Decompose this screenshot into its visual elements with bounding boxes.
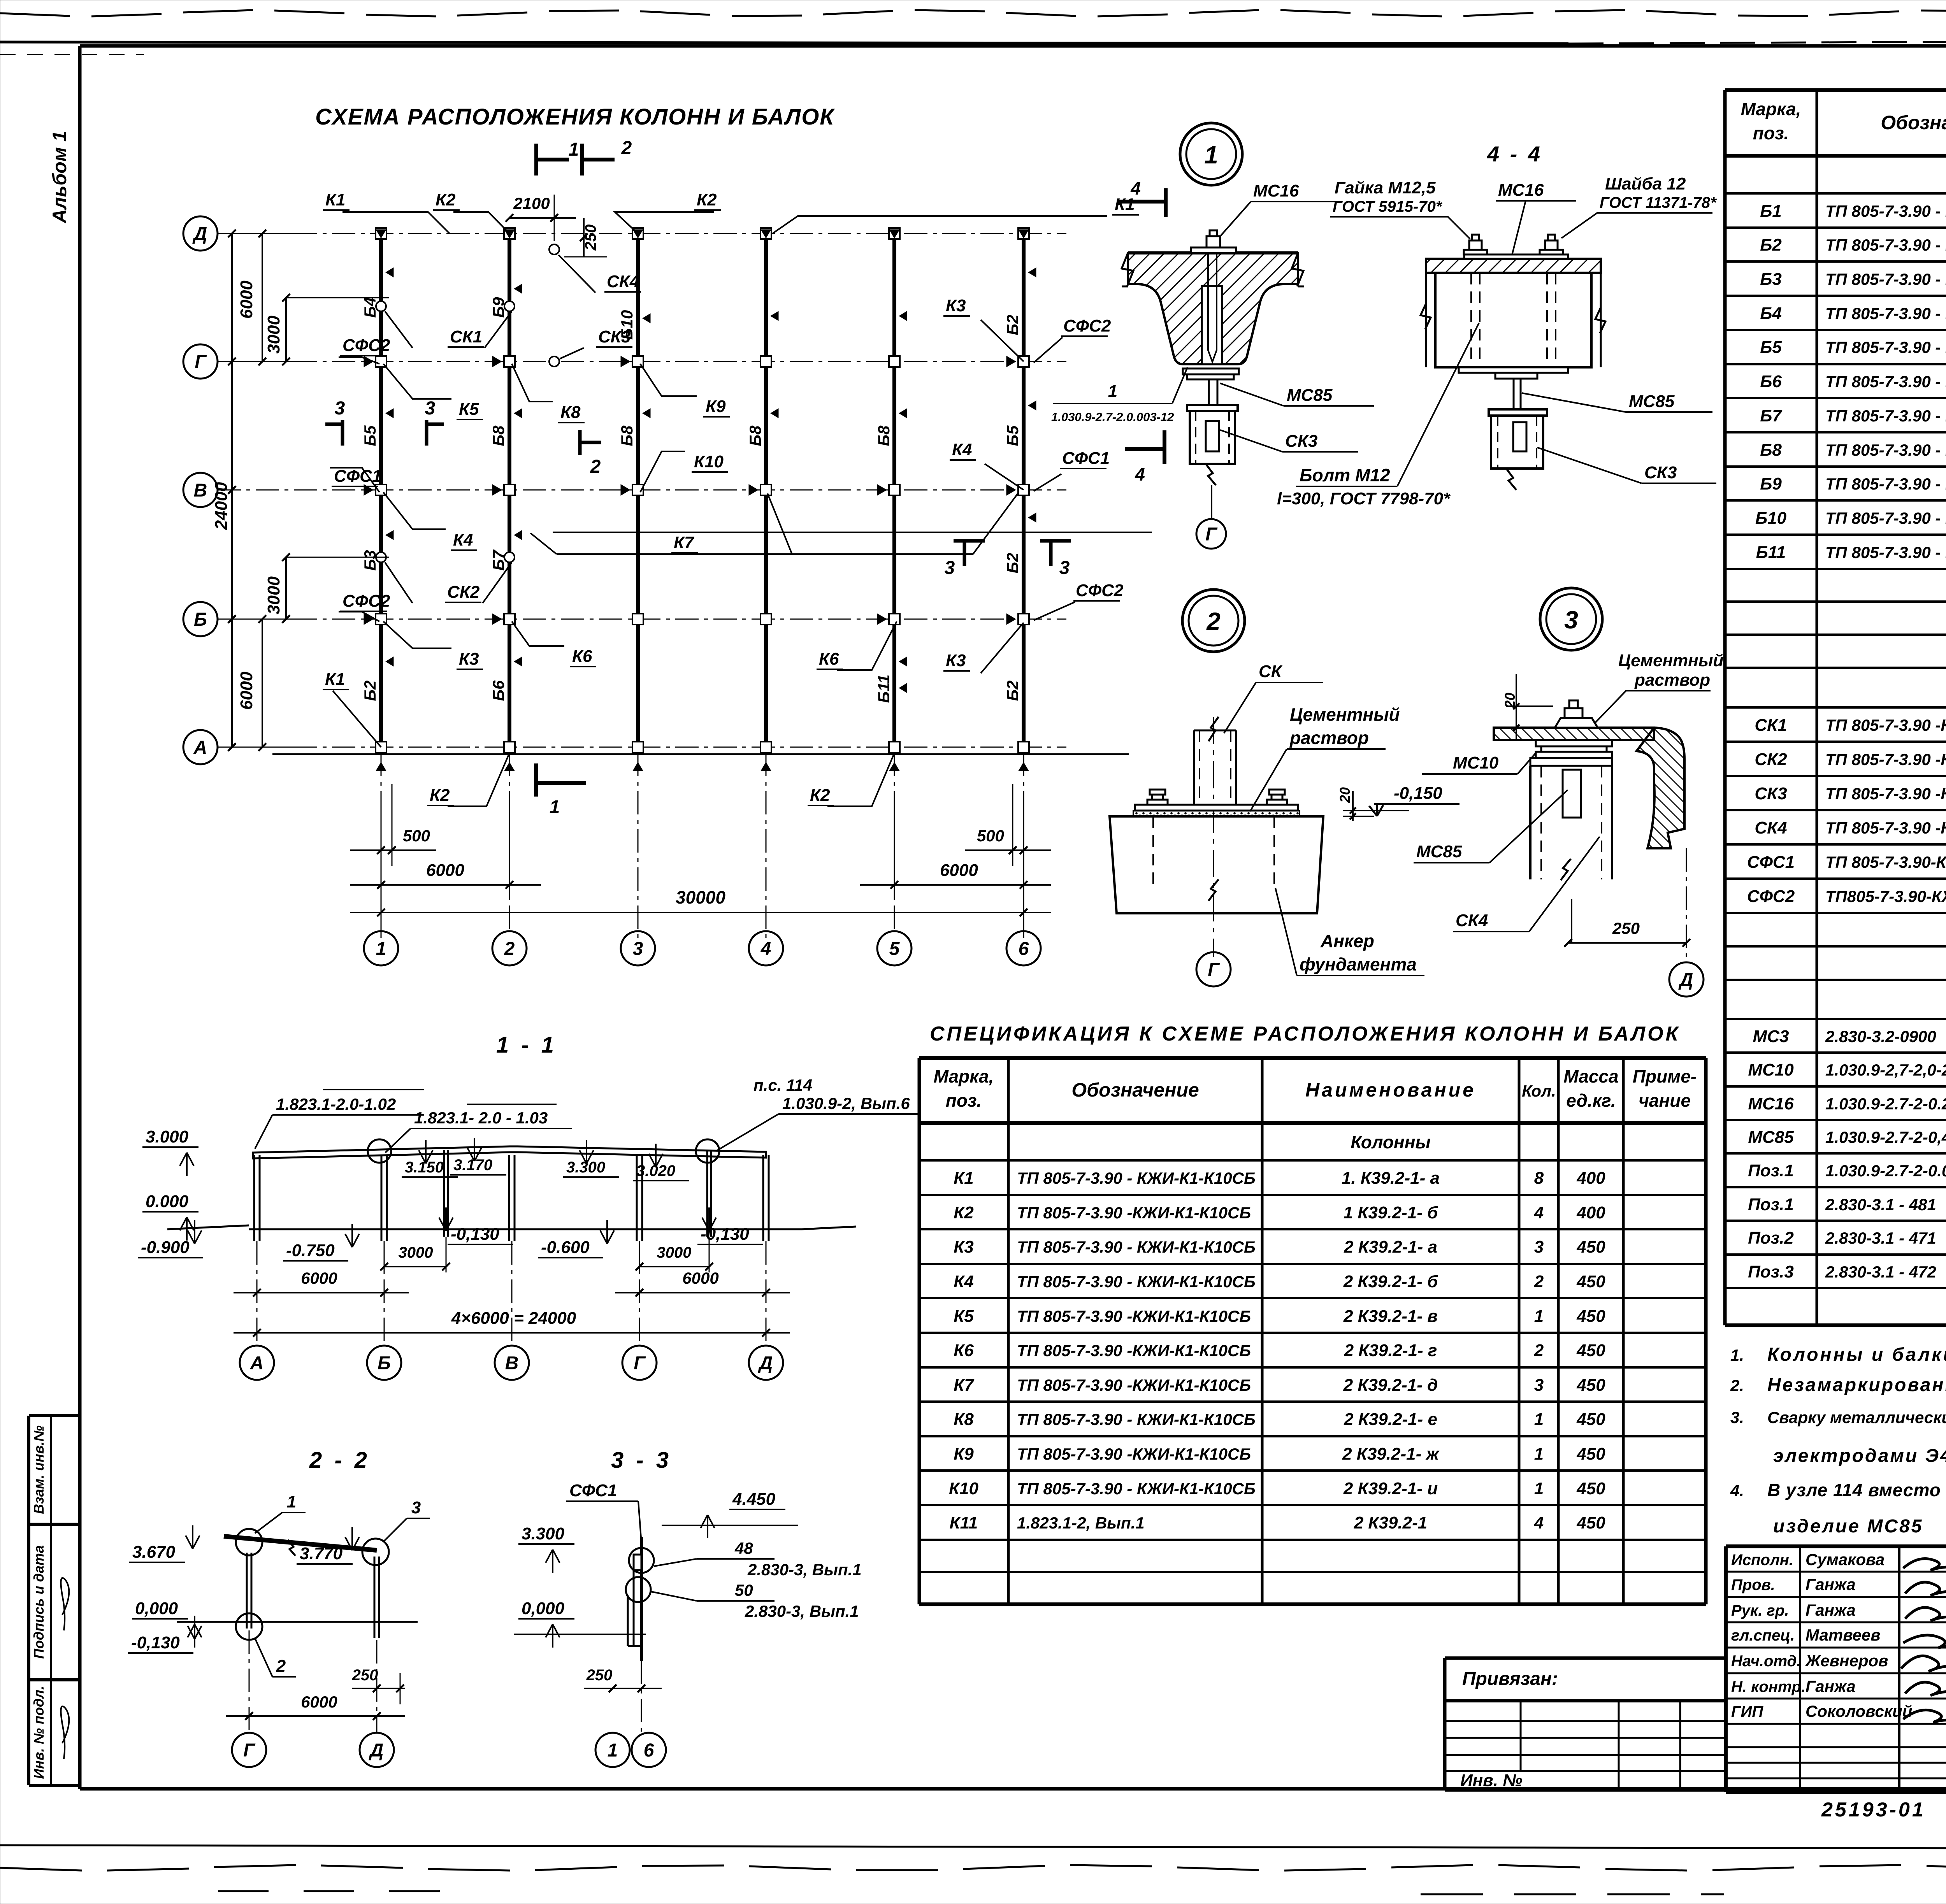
svg-text:2.830-3, Вып.1: 2.830-3, Вып.1 bbox=[747, 1560, 862, 1579]
svg-text:1.030.9-2.7-2-0.00.3-12: 1.030.9-2.7-2-0.00.3-12 bbox=[1825, 1162, 1946, 1180]
svg-text:В узле 114 вместо соедините: В узле 114 вместо соединительного издели… bbox=[1767, 1480, 1946, 1500]
svg-text:К6: К6 bbox=[954, 1341, 974, 1360]
svg-text:ТП 805-7-3.90 - КЖИ-Б1-Б11СБ: ТП 805-7-3.90 - КЖИ-Б1-Б11СБ bbox=[1825, 270, 1946, 288]
svg-text:ТП 805-7-3.90 - КЖИ-К1-К10СБ: ТП 805-7-3.90 - КЖИ-К1-К10СБ bbox=[1017, 1169, 1256, 1187]
svg-text:ТП 805-7-3.90 - КЖИ-Б1-Б11СБ: ТП 805-7-3.90 - КЖИ-Б1-Б11СБ bbox=[1825, 475, 1946, 493]
svg-text:СК3: СК3 bbox=[1285, 432, 1317, 451]
svg-text:Кол.: Кол. bbox=[1522, 1082, 1556, 1100]
svg-text:СК3: СК3 bbox=[598, 327, 631, 346]
svg-text:1.823.1-2.0-1.02: 1.823.1-2.0-1.02 bbox=[276, 1095, 396, 1113]
svg-text:Б9: Б9 bbox=[1760, 474, 1782, 493]
svg-text:СПЕЦИФИКАЦИЯ К СХЕМЕ РАСПОЛ: СПЕЦИФИКАЦИЯ К СХЕМЕ РАСПОЛОЖЕНИЯ КОЛОНН… bbox=[930, 1023, 1681, 1045]
svg-text:СФС2: СФС2 bbox=[1076, 581, 1124, 600]
svg-text:Г: Г bbox=[1208, 960, 1220, 980]
svg-text:1: 1 bbox=[608, 1740, 618, 1761]
svg-text:2.830-3.1 - 481: 2.830-3.1 - 481 bbox=[1825, 1195, 1936, 1214]
svg-text:Поз.2: Поз.2 bbox=[1748, 1228, 1794, 1248]
svg-text:электродами Э42 ГОСТ 9467-7: электродами Э42 ГОСТ 9467-75. bbox=[1773, 1446, 1946, 1466]
svg-text:250: 250 bbox=[582, 225, 599, 251]
svg-text:1.: 1. bbox=[1730, 1346, 1744, 1364]
svg-text:30000: 30000 bbox=[676, 887, 725, 907]
svg-text:ТП 805-7-3.90 - КЖИ-К1-К10СБ: ТП 805-7-3.90 - КЖИ-К1-К10СБ bbox=[1017, 1272, 1256, 1291]
svg-text:2 К39.2-1- ж: 2 К39.2-1- ж bbox=[1342, 1444, 1440, 1464]
svg-text:2.830-3.2-0900: 2.830-3.2-0900 bbox=[1825, 1027, 1936, 1046]
svg-text:Сварку металлических элементов: Сварку металлических элементов производи… bbox=[1767, 1408, 1946, 1427]
svg-text:Б6: Б6 bbox=[1760, 372, 1782, 391]
svg-text:К9: К9 bbox=[954, 1444, 974, 1464]
svg-text:2: 2 bbox=[504, 939, 515, 959]
svg-text:4.: 4. bbox=[1730, 1481, 1744, 1500]
svg-text:МС85: МС85 bbox=[1629, 392, 1675, 411]
svg-text:Колонны: Колонны bbox=[1351, 1132, 1431, 1152]
svg-text:ТП 805-7-3.90 -КЖИ-К1-К10СБ: ТП 805-7-3.90 -КЖИ-К1-К10СБ bbox=[1017, 1376, 1251, 1394]
svg-text:К7: К7 bbox=[674, 533, 695, 552]
svg-text:Г: Г bbox=[1205, 524, 1218, 545]
svg-text:К5: К5 bbox=[459, 400, 479, 419]
svg-text:2 К39.2-1- е: 2 К39.2-1- е bbox=[1344, 1410, 1437, 1429]
svg-text:Анкер: Анкер bbox=[1320, 931, 1374, 951]
svg-text:Б8: Б8 bbox=[746, 425, 764, 446]
svg-text:4.450: 4.450 bbox=[732, 1490, 776, 1509]
svg-text:Б10: Б10 bbox=[1755, 509, 1787, 528]
svg-text:6: 6 bbox=[1019, 939, 1029, 959]
svg-text:2 К39.2-1: 2 К39.2-1 bbox=[1354, 1513, 1428, 1532]
svg-text:ТП 805-7-3.90 -КЖИ-К1-К10СБ: ТП 805-7-3.90 -КЖИ-К1-К10СБ bbox=[1017, 1445, 1251, 1463]
svg-text:400: 400 bbox=[1576, 1169, 1605, 1188]
svg-text:2: 2 bbox=[1534, 1272, 1544, 1291]
svg-text:ТП 805-7-3.90 -КЖИ-СК1-СК4СБ: ТП 805-7-3.90 -КЖИ-СК1-СК4СБ bbox=[1825, 750, 1946, 769]
svg-text:К4: К4 bbox=[954, 1272, 974, 1291]
svg-text:Б4: Б4 bbox=[1760, 304, 1782, 323]
svg-text:Б8: Б8 bbox=[1760, 440, 1782, 460]
svg-text:К3: К3 bbox=[946, 651, 966, 670]
svg-text:Обозначение: Обозначение bbox=[1071, 1079, 1199, 1101]
svg-text:-0.600: -0.600 bbox=[541, 1238, 590, 1257]
svg-text:4×6000 = 24000: 4×6000 = 24000 bbox=[451, 1309, 576, 1328]
svg-text:3: 3 bbox=[1059, 558, 1070, 578]
svg-text:6000: 6000 bbox=[237, 672, 256, 710]
svg-text:-0,130: -0,130 bbox=[131, 1633, 180, 1652]
svg-text:Болт М12: Болт М12 bbox=[1300, 465, 1390, 485]
svg-text:20: 20 bbox=[1337, 787, 1353, 803]
svg-text:СФС1: СФС1 bbox=[569, 1481, 617, 1500]
svg-text:1: 1 bbox=[287, 1492, 296, 1511]
svg-text:1 К39.2-1- б: 1 К39.2-1- б bbox=[1344, 1203, 1438, 1222]
svg-text:1: 1 bbox=[1534, 1307, 1544, 1326]
svg-text:ТП 805-7-3.90 - КЖИ-К1-К10СБ: ТП 805-7-3.90 - КЖИ-К1-К10СБ bbox=[1017, 1410, 1256, 1428]
svg-text:СК4: СК4 bbox=[1755, 818, 1787, 837]
svg-text:24000: 24000 bbox=[212, 482, 231, 530]
svg-text:К7: К7 bbox=[954, 1376, 975, 1395]
svg-text:СФС1: СФС1 bbox=[334, 467, 381, 486]
svg-text:3000: 3000 bbox=[264, 316, 283, 354]
svg-text:Марка,: Марка, bbox=[1741, 99, 1801, 119]
svg-text:К6: К6 bbox=[819, 649, 839, 669]
svg-text:Б2: Б2 bbox=[361, 680, 379, 701]
svg-text:400: 400 bbox=[1576, 1203, 1605, 1222]
svg-text:К2: К2 bbox=[430, 786, 450, 805]
svg-text:К4: К4 bbox=[952, 440, 972, 459]
svg-text:ТП 805-7-3.90 - КЖИ-Б1-Б11СБ: ТП 805-7-3.90 - КЖИ-Б1-Б11СБ bbox=[1825, 509, 1946, 527]
svg-text:450: 450 bbox=[1576, 1341, 1605, 1360]
svg-text:Д: Д bbox=[192, 224, 207, 244]
svg-text:1 - 1: 1 - 1 bbox=[496, 1032, 557, 1058]
svg-text:СК3: СК3 bbox=[1644, 463, 1677, 482]
svg-text:6000: 6000 bbox=[682, 1269, 718, 1287]
svg-text:Подпись и дата: Подпись и дата bbox=[31, 1545, 47, 1659]
svg-text:1: 1 bbox=[550, 797, 560, 818]
svg-text:А: А bbox=[250, 1353, 264, 1374]
svg-text:В: В bbox=[505, 1353, 519, 1374]
svg-text:50: 50 bbox=[735, 1581, 753, 1599]
svg-text:Б11: Б11 bbox=[1756, 543, 1786, 562]
svg-text:2: 2 bbox=[276, 1657, 286, 1676]
svg-text:6000: 6000 bbox=[301, 1269, 337, 1287]
svg-text:К1: К1 bbox=[325, 670, 345, 689]
svg-text:2.830-3.1 - 472: 2.830-3.1 - 472 bbox=[1825, 1263, 1936, 1281]
svg-text:К11: К11 bbox=[950, 1513, 978, 1532]
svg-text:3000: 3000 bbox=[657, 1244, 692, 1261]
svg-text:3: 3 bbox=[425, 398, 436, 419]
svg-text:Б5: Б5 bbox=[361, 425, 379, 446]
svg-text:Масса: Масса bbox=[1563, 1066, 1618, 1086]
svg-text:К1: К1 bbox=[325, 190, 346, 209]
svg-text:Б2: Б2 bbox=[1003, 553, 1022, 573]
svg-text:8: 8 bbox=[1534, 1169, 1544, 1188]
svg-text:450: 450 bbox=[1576, 1444, 1605, 1464]
svg-text:0,000: 0,000 bbox=[522, 1599, 565, 1618]
svg-text:К8: К8 bbox=[560, 403, 581, 422]
svg-text:МС3: МС3 bbox=[1753, 1027, 1789, 1046]
svg-text:ТП 805-7-3.90 - КЖИ-Б1-Б11СБ: ТП 805-7-3.90 - КЖИ-Б1-Б11СБ bbox=[1825, 372, 1946, 391]
svg-text:МС85: МС85 bbox=[1748, 1128, 1794, 1147]
svg-text:Г: Г bbox=[195, 352, 207, 372]
svg-text:3000: 3000 bbox=[399, 1244, 433, 1261]
svg-text:6000: 6000 bbox=[426, 861, 464, 880]
svg-text:ТП 805-7-3.90 - КЖИ-Б1-Б11СБ: ТП 805-7-3.90 - КЖИ-Б1-Б11СБ bbox=[1825, 543, 1946, 562]
svg-text:250: 250 bbox=[1612, 919, 1640, 937]
svg-text:1.030.9-2.7-2.0.003-12: 1.030.9-2.7-2.0.003-12 bbox=[1051, 410, 1174, 424]
svg-text:К2: К2 bbox=[697, 190, 717, 209]
svg-text:СФС2: СФС2 bbox=[1063, 316, 1111, 335]
svg-text:фундамента: фундамента bbox=[1300, 954, 1417, 974]
svg-text:ТП 805-7-3.90 - КЖИ-Б1-Б11СБ: ТП 805-7-3.90 - КЖИ-Б1-Б11СБ bbox=[1825, 441, 1946, 459]
svg-text:6000: 6000 bbox=[237, 281, 256, 319]
svg-text:1: 1 bbox=[569, 139, 579, 160]
svg-text:изделие МС85: изделие МС85 bbox=[1773, 1516, 1923, 1537]
svg-text:СХЕМА РАСПОЛОЖЕНИЯ КОЛОНН И: СХЕМА РАСПОЛОЖЕНИЯ КОЛОНН И БАЛОК bbox=[315, 104, 835, 130]
svg-text:Ганжа: Ганжа bbox=[1805, 1575, 1856, 1593]
svg-text:ТП 805-7-3.90 -КЖИ-К1-К10СБ: ТП 805-7-3.90 -КЖИ-К1-К10СБ bbox=[1017, 1307, 1251, 1325]
svg-text:2 К39.2-1- а: 2 К39.2-1- а bbox=[1344, 1237, 1437, 1256]
svg-text:3 - 3: 3 - 3 bbox=[611, 1448, 672, 1473]
svg-text:2 - 2: 2 - 2 bbox=[309, 1448, 370, 1473]
svg-text:Взам. инв.№: Взам. инв.№ bbox=[31, 1425, 47, 1514]
svg-text:3000: 3000 bbox=[264, 576, 283, 614]
svg-text:Б8: Б8 bbox=[875, 425, 893, 446]
svg-text:1.823.1- 2.0 - 1.03: 1.823.1- 2.0 - 1.03 bbox=[414, 1109, 548, 1127]
svg-text:Д: Д bbox=[1678, 970, 1693, 990]
svg-text:1.030.9-2.7-2-0,49.0: 1.030.9-2.7-2-0,49.0 bbox=[1825, 1128, 1946, 1146]
svg-text:Б5: Б5 bbox=[1760, 338, 1782, 357]
svg-text:СК3: СК3 bbox=[1755, 784, 1787, 803]
svg-text:1: 1 bbox=[1204, 141, 1218, 169]
svg-text:СК1: СК1 bbox=[1755, 716, 1787, 735]
svg-text:3: 3 bbox=[335, 398, 345, 419]
svg-text:Б11: Б11 bbox=[875, 674, 893, 703]
svg-text:Б7: Б7 bbox=[489, 549, 508, 571]
svg-text:3: 3 bbox=[1534, 1237, 1544, 1256]
svg-text:1.030.9-2.7-2-0.22.0: 1.030.9-2.7-2-0.22.0 bbox=[1825, 1095, 1946, 1113]
svg-text:3.000: 3.000 bbox=[146, 1127, 189, 1146]
svg-text:ТП 805-7-3.90 -КЖИ-СК1-СК4СБ: ТП 805-7-3.90 -КЖИ-СК1-СК4СБ bbox=[1825, 819, 1946, 837]
svg-text:25193-01: 25193-01 bbox=[1821, 1799, 1926, 1821]
svg-text:К8: К8 bbox=[954, 1410, 974, 1429]
svg-text:Колонны и балки ориентирова: Колонны и балки ориентировать по знаку bbox=[1767, 1344, 1946, 1365]
svg-text:Обозначение: Обозначение bbox=[1881, 112, 1946, 133]
svg-text:Незамаркированные колонны пр: Незамаркированные колонны приняты марки … bbox=[1767, 1375, 1946, 1395]
svg-text:поз.: поз. bbox=[946, 1090, 982, 1111]
svg-text:2 К39.2-1- и: 2 К39.2-1- и bbox=[1343, 1479, 1438, 1498]
svg-text:1: 1 bbox=[1534, 1410, 1544, 1429]
svg-text:1: 1 bbox=[376, 939, 386, 959]
svg-text:К3: К3 bbox=[954, 1237, 974, 1256]
svg-text:МС10: МС10 bbox=[1453, 753, 1499, 772]
svg-text:ТП 805-7-3.90 - КЖИ-Б1-Б11СБ: ТП 805-7-3.90 - КЖИ-Б1-Б11СБ bbox=[1825, 338, 1946, 356]
svg-text:2.: 2. bbox=[1730, 1376, 1744, 1395]
svg-text:2: 2 bbox=[1534, 1341, 1544, 1360]
svg-text:МС85: МС85 bbox=[1287, 386, 1333, 405]
svg-text:2 К39.2-1- б: 2 К39.2-1- б bbox=[1343, 1272, 1438, 1291]
svg-text:-0.900: -0.900 bbox=[141, 1238, 190, 1257]
svg-text:Привязан:: Привязан: bbox=[1462, 1669, 1558, 1689]
svg-text:К10: К10 bbox=[949, 1479, 979, 1498]
svg-text:ТП 805-7-3.90 - КЖИ-Б1-Б11СБ: ТП 805-7-3.90 - КЖИ-Б1-Б11СБ bbox=[1825, 202, 1946, 220]
svg-text:К4: К4 bbox=[453, 530, 473, 549]
svg-text:ТП 805-7-3.90 -КЖИ-СК1-СК4СБ: ТП 805-7-3.90 -КЖИ-СК1-СК4СБ bbox=[1825, 716, 1946, 734]
svg-text:Б5: Б5 bbox=[1003, 425, 1022, 446]
svg-text:3: 3 bbox=[633, 939, 643, 959]
svg-text:4 - 4: 4 - 4 bbox=[1487, 142, 1542, 166]
svg-text:СК2: СК2 bbox=[1755, 750, 1787, 769]
svg-text:450: 450 bbox=[1576, 1376, 1605, 1395]
svg-text:2 К39.2-1- г: 2 К39.2-1- г bbox=[1344, 1341, 1437, 1360]
svg-text:СФС1: СФС1 bbox=[1747, 853, 1795, 872]
svg-text:Б3: Б3 bbox=[361, 550, 379, 570]
svg-text:2100: 2100 bbox=[513, 194, 550, 212]
svg-text:Б4: Б4 bbox=[361, 297, 379, 318]
svg-text:К1: К1 bbox=[954, 1169, 974, 1188]
svg-text:МС16: МС16 bbox=[1253, 181, 1299, 200]
svg-text:Нач.отд.: Нач.отд. bbox=[1731, 1653, 1801, 1670]
svg-text:1.823.1-2, Вып.1: 1.823.1-2, Вып.1 bbox=[1017, 1514, 1145, 1532]
svg-text:ТП 805-7-3.90 - КЖИ-Б1-Б11СБ: ТП 805-7-3.90 - КЖИ-Б1-Б11СБ bbox=[1825, 407, 1946, 425]
svg-text:К2: К2 bbox=[810, 786, 830, 805]
svg-text:СФС1: СФС1 bbox=[1062, 449, 1110, 468]
svg-text:Инв. № подл.: Инв. № подл. bbox=[31, 1686, 47, 1779]
svg-text:1.030.9-2, Вып.6: 1.030.9-2, Вып.6 bbox=[782, 1094, 910, 1113]
svg-text:4: 4 bbox=[760, 939, 771, 959]
svg-text:6: 6 bbox=[644, 1740, 654, 1761]
svg-text:Б2: Б2 bbox=[1003, 314, 1022, 335]
svg-text:Б: Б bbox=[194, 609, 207, 630]
svg-text:Г: Г bbox=[243, 1740, 256, 1761]
svg-text:Поз.1: Поз.1 bbox=[1748, 1161, 1794, 1180]
svg-text:450: 450 bbox=[1576, 1410, 1605, 1429]
svg-text:2.830-3.1 - 471: 2.830-3.1 - 471 bbox=[1825, 1229, 1936, 1247]
svg-text:0,000: 0,000 bbox=[135, 1599, 178, 1618]
svg-text:ТП 805-7-3.90-КЖИ-СФС1, СФС2: ТП 805-7-3.90-КЖИ-СФС1, СФС2 bbox=[1825, 853, 1946, 871]
svg-text:0.000: 0.000 bbox=[146, 1192, 189, 1211]
svg-text:Инв. №: Инв. № bbox=[1460, 1771, 1523, 1790]
svg-text:Д: Д bbox=[758, 1353, 773, 1374]
svg-text:Гайка М12,5: Гайка М12,5 bbox=[1335, 178, 1436, 197]
svg-text:6000: 6000 bbox=[301, 1693, 337, 1711]
svg-text:1: 1 bbox=[1534, 1479, 1544, 1498]
svg-text:Б1: Б1 bbox=[1760, 202, 1782, 221]
svg-text:3: 3 bbox=[1534, 1376, 1544, 1395]
svg-text:250: 250 bbox=[352, 1667, 378, 1684]
svg-text:4: 4 bbox=[1534, 1203, 1544, 1222]
svg-text:2: 2 bbox=[1206, 607, 1221, 635]
svg-text:ГОСТ 11371-78*: ГОСТ 11371-78* bbox=[1600, 194, 1717, 211]
svg-text:СФС2: СФС2 bbox=[1747, 887, 1795, 906]
svg-text:Цементный: Цементный bbox=[1290, 704, 1400, 725]
svg-text:К5: К5 bbox=[954, 1307, 974, 1326]
svg-text:К9: К9 bbox=[706, 397, 726, 416]
svg-text:поз.: поз. bbox=[1753, 123, 1789, 143]
svg-text:-0.750: -0.750 bbox=[286, 1241, 335, 1260]
svg-text:450: 450 bbox=[1576, 1513, 1605, 1532]
svg-text:2.830-3, Вып.1: 2.830-3, Вып.1 bbox=[745, 1602, 859, 1620]
svg-text:раствор: раствор bbox=[1289, 728, 1369, 748]
svg-text:Марка,: Марка, bbox=[934, 1066, 994, 1086]
svg-text:-0,150: -0,150 bbox=[1394, 784, 1442, 803]
svg-text:Поз.3: Поз.3 bbox=[1748, 1262, 1794, 1281]
svg-text:Б2: Б2 bbox=[1760, 235, 1782, 254]
svg-text:ТП 805-7-3.90 -КЖИ-К1-К10СБ: ТП 805-7-3.90 -КЖИ-К1-К10СБ bbox=[1017, 1341, 1251, 1360]
svg-text:ТП 805-7-3.90 - КЖИ-К1-К10СБ: ТП 805-7-3.90 - КЖИ-К1-К10СБ bbox=[1017, 1238, 1256, 1256]
svg-text:раствор: раствор bbox=[1634, 670, 1710, 690]
svg-text:Наименование: Наименование bbox=[1305, 1079, 1476, 1101]
svg-text:К2: К2 bbox=[954, 1203, 974, 1222]
svg-text:В: В bbox=[194, 480, 207, 501]
svg-text:Б8: Б8 bbox=[618, 425, 636, 446]
svg-text:3.770: 3.770 bbox=[300, 1544, 343, 1563]
svg-text:2: 2 bbox=[590, 456, 601, 477]
svg-text:СК1: СК1 bbox=[450, 327, 482, 346]
svg-text:СК4: СК4 bbox=[607, 272, 639, 291]
svg-text:гл.спец.: гл.спец. bbox=[1731, 1627, 1795, 1644]
svg-text:МС16: МС16 bbox=[1748, 1094, 1794, 1113]
svg-text:1. К39.2-1- а: 1. К39.2-1- а bbox=[1342, 1169, 1440, 1188]
svg-text:250: 250 bbox=[586, 1667, 613, 1684]
svg-text:500: 500 bbox=[977, 827, 1004, 845]
svg-text:К2: К2 bbox=[436, 190, 456, 209]
svg-text:48: 48 bbox=[734, 1539, 753, 1557]
svg-text:чание: чание bbox=[1639, 1090, 1691, 1111]
svg-text:Б3: Б3 bbox=[1760, 270, 1782, 289]
svg-text:Б7: Б7 bbox=[1760, 406, 1783, 425]
svg-text:К3: К3 bbox=[459, 649, 479, 669]
svg-text:Приме-: Приме- bbox=[1633, 1066, 1697, 1086]
svg-text:3: 3 bbox=[1564, 606, 1578, 634]
svg-text:Б8: Б8 bbox=[489, 425, 508, 446]
svg-text:ТП 805-7-3.90 - КЖИ-К1-К10СБ: ТП 805-7-3.90 - КЖИ-К1-К10СБ bbox=[1017, 1479, 1256, 1498]
svg-text:Б6: Б6 bbox=[489, 680, 508, 701]
svg-text:4: 4 bbox=[1135, 464, 1145, 484]
svg-text:1: 1 bbox=[1108, 382, 1117, 401]
svg-text:СФС2: СФС2 bbox=[342, 336, 390, 355]
svg-text:450: 450 bbox=[1576, 1307, 1605, 1326]
svg-text:450: 450 bbox=[1576, 1237, 1605, 1256]
svg-text:СК4: СК4 bbox=[1456, 911, 1488, 930]
svg-text:2 К39.2-1- д: 2 К39.2-1- д bbox=[1343, 1376, 1438, 1395]
svg-text:3: 3 bbox=[411, 1498, 421, 1517]
svg-text:4: 4 bbox=[1534, 1513, 1544, 1532]
svg-text:п.с. 114: п.с. 114 bbox=[753, 1076, 812, 1094]
svg-text:l=300, ГОСТ 7798-70*: l=300, ГОСТ 7798-70* bbox=[1277, 489, 1451, 508]
svg-text:Б2: Б2 bbox=[1003, 680, 1022, 701]
svg-text:СФС2: СФС2 bbox=[342, 591, 390, 611]
svg-text:Б: Б bbox=[378, 1353, 391, 1374]
svg-text:Ганжа: Ганжа bbox=[1805, 1601, 1856, 1619]
svg-text:3.670: 3.670 bbox=[132, 1543, 176, 1562]
svg-text:450: 450 bbox=[1576, 1272, 1605, 1291]
svg-text:Сумакова: Сумакова bbox=[1805, 1550, 1885, 1569]
svg-text:ед.кг.: ед.кг. bbox=[1566, 1090, 1616, 1111]
svg-text:Альбом 1: Альбом 1 bbox=[49, 131, 70, 224]
svg-text:ТП805-7-3.90-КЖИ-СФС1, СФС2: ТП805-7-3.90-КЖИ-СФС1, СФС2 bbox=[1825, 887, 1946, 905]
svg-text:2 К39.2-1- в: 2 К39.2-1- в bbox=[1343, 1307, 1438, 1326]
svg-text:3: 3 bbox=[945, 558, 955, 578]
svg-text:К10: К10 bbox=[694, 452, 724, 471]
svg-text:Соколовский: Соколовский bbox=[1805, 1702, 1912, 1720]
svg-text:1.030.9-2,7-2,0-20.0 СБ: 1.030.9-2,7-2,0-20.0 СБ bbox=[1825, 1061, 1946, 1079]
svg-text:Шайба 12: Шайба 12 bbox=[1605, 174, 1686, 193]
svg-text:3.300: 3.300 bbox=[522, 1524, 565, 1543]
svg-text:ТП 805-7-3.90 - КЖИ-Б1-Б11СБ: ТП 805-7-3.90 - КЖИ-Б1-Б11СБ bbox=[1825, 236, 1946, 254]
svg-text:Цементный: Цементный bbox=[1618, 651, 1723, 670]
svg-text:Матвеев: Матвеев bbox=[1805, 1626, 1881, 1644]
svg-text:Исполн.: Исполн. bbox=[1731, 1551, 1793, 1569]
svg-text:Поз.1: Поз.1 bbox=[1748, 1195, 1794, 1214]
svg-text:МС10: МС10 bbox=[1748, 1060, 1794, 1079]
svg-text:Б9: Б9 bbox=[489, 297, 508, 318]
svg-text:Г: Г bbox=[634, 1353, 646, 1374]
svg-text:ГОСТ 5915-70*: ГОСТ 5915-70* bbox=[1333, 198, 1443, 215]
svg-text:Н. контр.: Н. контр. bbox=[1731, 1678, 1805, 1695]
svg-text:ГИП: ГИП bbox=[1731, 1703, 1763, 1720]
svg-text:450: 450 bbox=[1576, 1479, 1605, 1498]
svg-text:А: А bbox=[193, 737, 207, 758]
svg-text:5: 5 bbox=[889, 939, 900, 959]
svg-text:СК: СК bbox=[1259, 662, 1283, 681]
svg-text:1: 1 bbox=[1534, 1444, 1544, 1464]
svg-text:Рук. гр.: Рук. гр. bbox=[1731, 1602, 1789, 1619]
svg-text:МС85: МС85 bbox=[1416, 842, 1462, 861]
svg-text:Жевнеров: Жевнеров bbox=[1805, 1651, 1888, 1670]
svg-text:МС16: МС16 bbox=[1498, 181, 1544, 200]
svg-text:500: 500 bbox=[403, 827, 430, 845]
svg-text:ТП 805-7-3.90 -КЖИ-СК1-СК4СБ: ТП 805-7-3.90 -КЖИ-СК1-СК4СБ bbox=[1825, 784, 1946, 803]
svg-text:4: 4 bbox=[1130, 178, 1141, 198]
svg-text:3.: 3. bbox=[1730, 1408, 1744, 1427]
svg-text:Пров.: Пров. bbox=[1731, 1576, 1775, 1593]
svg-text:2: 2 bbox=[621, 138, 632, 158]
svg-text:К3: К3 bbox=[946, 296, 966, 315]
svg-text:Ганжа: Ганжа bbox=[1805, 1677, 1856, 1695]
